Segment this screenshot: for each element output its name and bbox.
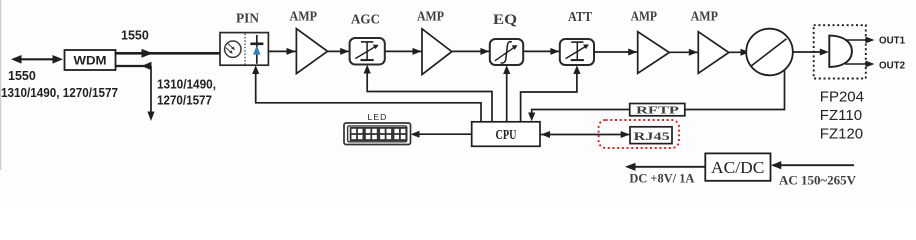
PIN box <box>220 33 268 66</box>
svg-text:ATT: ATT <box>568 10 593 25</box>
wire bidirectional fiber arrow left of WDM <box>11 55 63 64</box>
splitter circle <box>746 29 793 76</box>
svg-text:AMP: AMP <box>691 10 719 25</box>
photodiode circle <box>225 41 241 57</box>
equalizer EQ box <box>490 39 523 65</box>
wire CPU to LED display <box>411 131 472 138</box>
RFTP box <box>630 104 685 117</box>
wire WDM lower port (left arrow, then down arrow) <box>116 62 155 121</box>
svg-text:RFTP: RFTP <box>636 105 679 117</box>
AC/DC box <box>705 153 770 180</box>
svg-text:1550: 1550 <box>121 29 149 43</box>
svg-text:LED: LED <box>368 112 388 122</box>
svg-text:1310/1490, 1270/1577: 1310/1490, 1270/1577 <box>1 86 118 100</box>
wire RFTP to CPU (down arrow) <box>528 110 630 122</box>
svg-text:OUT1: OUT1 <box>879 36 905 47</box>
svg-text:AMP: AMP <box>417 9 444 24</box>
svg-text:AC 150~265V: AC 150~265V <box>779 172 857 187</box>
diode cathode bar <box>250 42 263 45</box>
svg-text:CPU: CPU <box>496 127 517 142</box>
amplifier AMP2 triangle <box>422 29 452 75</box>
wire ATT to AMP3 <box>594 49 638 56</box>
wire CPU to EQ control <box>503 65 510 122</box>
amplifier AMP3 triangle <box>638 32 670 74</box>
svg-text:DC +8V/ 1A: DC +8V/ 1A <box>629 171 695 186</box>
svg-text:FP204: FP204 <box>820 89 864 106</box>
CPU box <box>472 122 540 147</box>
light arrow 2 <box>226 48 233 54</box>
wire OUT2 <box>845 61 875 68</box>
svg-text:1270/1577: 1270/1577 <box>157 94 212 108</box>
svg-text:AC/DC: AC/DC <box>711 158 765 177</box>
wire CPU to PIN control <box>252 65 481 122</box>
diode blue triangle <box>253 45 260 54</box>
WDM box <box>65 50 116 70</box>
svg-text:AMP: AMP <box>631 10 658 25</box>
combiner D shape <box>829 36 852 67</box>
wire AMP2 to EQ <box>452 48 490 55</box>
wire WDM to PIN (thick, with right arrow) <box>116 49 221 58</box>
wire PIN to AMP1 <box>268 48 296 55</box>
wire AMP4 to splitter <box>729 49 750 56</box>
RJ45 red dotted box <box>599 120 679 148</box>
wire EQ to ATT <box>523 48 560 55</box>
wire splitter to output block <box>793 49 829 56</box>
LED display box <box>344 123 411 145</box>
wire OUT1 <box>845 37 875 44</box>
RJ45 box <box>630 127 672 144</box>
svg-text:AGC: AGC <box>351 12 380 27</box>
dotted output module box <box>814 25 866 78</box>
svg-text:PIN: PIN <box>236 12 259 27</box>
attenuator ATT box <box>560 39 594 65</box>
wire CPU to AGC control <box>364 65 492 122</box>
light arrow 1 <box>228 43 235 50</box>
wire AGC to AMP2 <box>385 48 422 55</box>
svg-text:AMP: AMP <box>290 10 318 25</box>
wire splitter down to RFTP <box>685 70 785 110</box>
svg-text:FZ120: FZ120 <box>820 126 863 143</box>
wire CPU to RJ45 (bidirectional) <box>540 131 630 138</box>
wire AC input <box>771 161 854 169</box>
attenuator AGC box <box>350 38 385 65</box>
LED digit 1 <box>351 128 364 140</box>
LED digit 3 <box>379 128 392 140</box>
svg-text:1310/1490,: 1310/1490, <box>157 78 216 92</box>
left page border <box>0 0 2 170</box>
dotted divider <box>244 34 246 65</box>
svg-text:RJ45: RJ45 <box>634 129 670 143</box>
svg-text:EQ: EQ <box>493 12 517 28</box>
wire AC/DC DC output <box>625 163 705 171</box>
amplifier AMP4 triangle <box>698 32 729 74</box>
wire AMP1 to AGC <box>328 48 350 55</box>
svg-text:1550: 1550 <box>8 69 36 83</box>
amplifier AMP1 triangle <box>296 29 327 74</box>
wire AMP3 to AMP4 <box>669 49 698 56</box>
LED digit 4 <box>394 128 407 140</box>
diode vertical lead <box>256 35 258 64</box>
svg-text:OUT2: OUT2 <box>879 61 905 72</box>
wire CPU to ATT control <box>521 65 581 122</box>
svg-text:WDM: WDM <box>74 54 107 68</box>
LED digit 2 <box>365 128 378 140</box>
svg-text:FZ110: FZ110 <box>820 107 862 124</box>
